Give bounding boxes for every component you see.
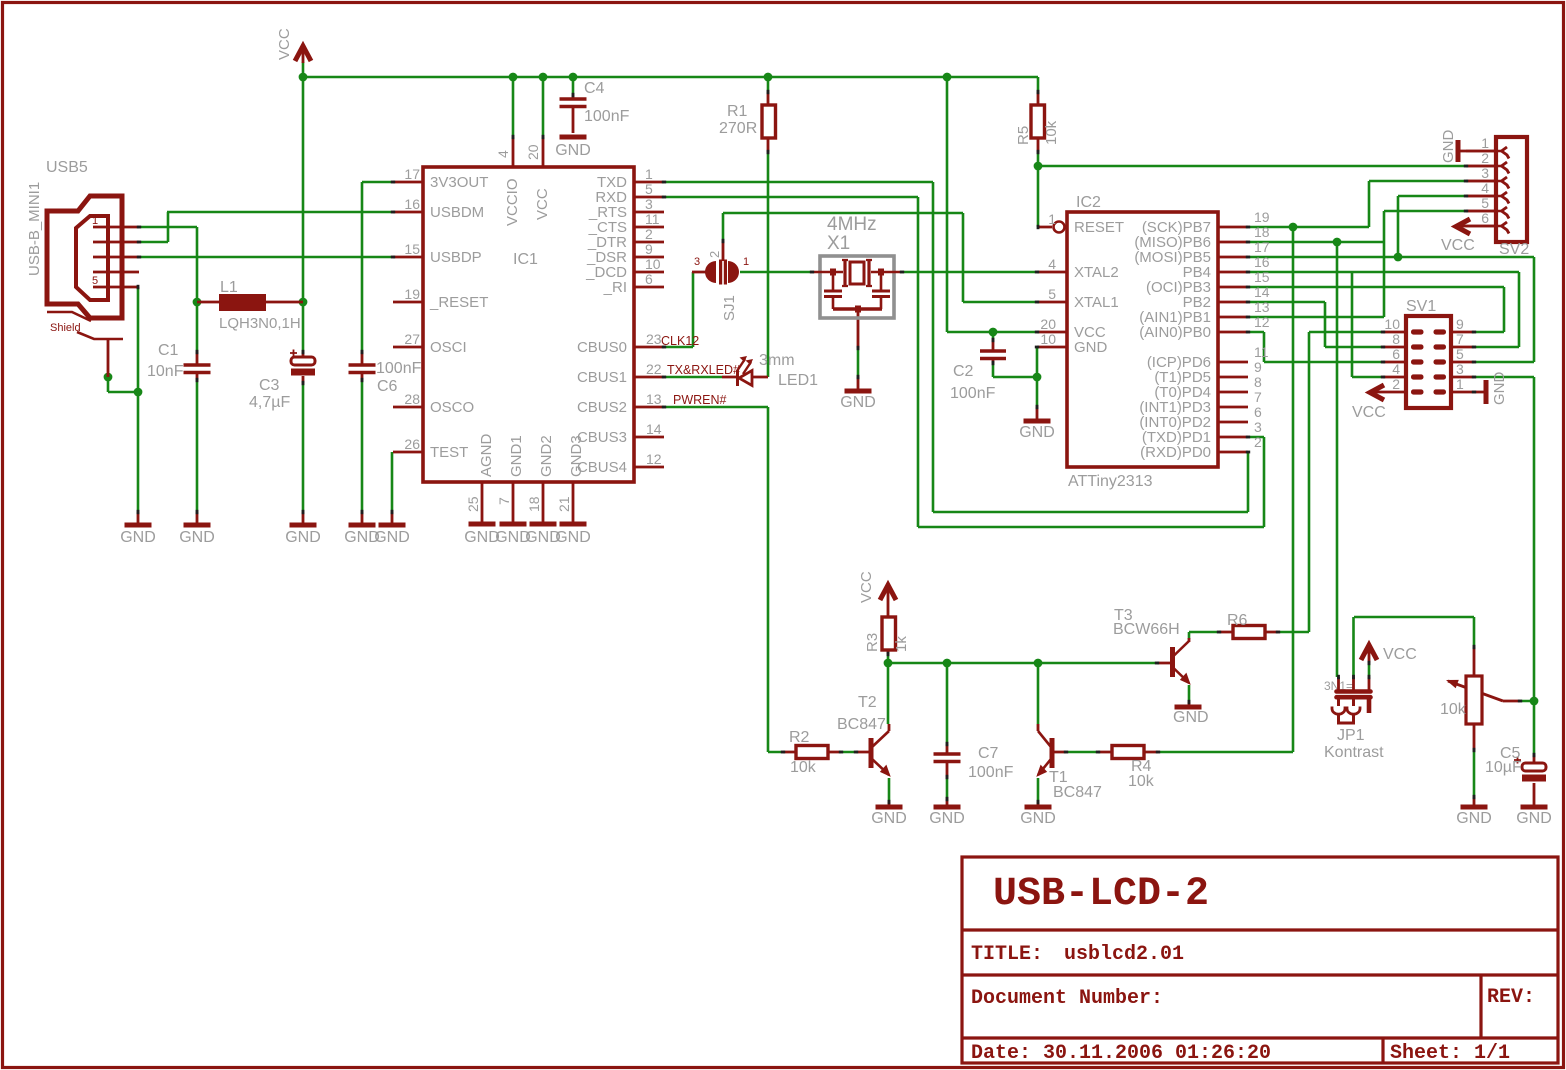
svg-text:GND: GND xyxy=(1491,372,1508,406)
svg-text:GND: GND xyxy=(1456,810,1492,827)
svg-text:Shield: Shield xyxy=(50,322,81,334)
svg-text:CBUS2: CBUS2 xyxy=(577,399,627,416)
svg-text:LQH3N0,1H: LQH3N0,1H xyxy=(219,315,301,332)
svg-text:15: 15 xyxy=(404,241,420,257)
svg-text:1: 1 xyxy=(645,166,653,182)
svg-text:19: 19 xyxy=(404,286,420,302)
svg-text:T2: T2 xyxy=(858,694,877,711)
svg-text:Date: 30.11.2006 01:26:20: Date: 30.11.2006 01:26:20 xyxy=(971,1042,1271,1065)
svg-text:10k: 10k xyxy=(1128,773,1155,790)
svg-text:4: 4 xyxy=(1048,256,1056,272)
svg-text:TEST: TEST xyxy=(430,444,468,461)
svg-text:C6: C6 xyxy=(377,378,398,395)
svg-text:15: 15 xyxy=(1254,269,1270,285)
svg-text:6: 6 xyxy=(1481,210,1489,226)
svg-text:10: 10 xyxy=(1384,316,1400,332)
svg-text:USBDP: USBDP xyxy=(430,249,482,266)
svg-text:LED1: LED1 xyxy=(778,372,818,389)
svg-text:26: 26 xyxy=(404,436,420,452)
svg-text:TX&RXLED#: TX&RXLED# xyxy=(667,363,740,377)
svg-text:10k: 10k xyxy=(790,759,817,776)
svg-text:100nF: 100nF xyxy=(376,360,422,377)
svg-text:IC2: IC2 xyxy=(1076,194,1101,211)
svg-text:R2: R2 xyxy=(789,729,810,746)
svg-text:GND: GND xyxy=(1440,130,1457,164)
svg-text:14: 14 xyxy=(646,421,662,437)
svg-text:5: 5 xyxy=(1481,195,1489,211)
svg-text:5: 5 xyxy=(1456,346,1464,362)
svg-text:13: 13 xyxy=(1254,299,1270,315)
svg-text:VCC: VCC xyxy=(1441,237,1475,254)
svg-text:GND: GND xyxy=(374,529,410,546)
svg-text:GND3: GND3 xyxy=(568,435,585,477)
svg-text:VCC: VCC xyxy=(534,188,551,220)
svg-text:AGND: AGND xyxy=(478,433,495,477)
svg-text:GND: GND xyxy=(1074,339,1108,356)
svg-text:12: 12 xyxy=(1254,314,1270,330)
svg-text:1k: 1k xyxy=(893,636,910,652)
svg-text:4: 4 xyxy=(1481,180,1489,196)
svg-text:3: 3 xyxy=(1456,361,1464,377)
svg-text:OSCO: OSCO xyxy=(430,399,474,416)
svg-text:5: 5 xyxy=(92,275,98,287)
svg-text:Kontrast: Kontrast xyxy=(1324,744,1384,761)
svg-text:100nF: 100nF xyxy=(950,385,996,402)
svg-text:9: 9 xyxy=(1254,359,1262,375)
svg-text:C2: C2 xyxy=(953,363,974,380)
svg-text:USB-LCD-2: USB-LCD-2 xyxy=(993,872,1209,917)
svg-text:7: 7 xyxy=(1456,331,1464,347)
svg-text:GND: GND xyxy=(555,529,591,546)
svg-text:GND: GND xyxy=(1516,810,1552,827)
svg-text:C7: C7 xyxy=(978,745,999,762)
svg-text:7: 7 xyxy=(496,497,512,505)
svg-text:GND: GND xyxy=(555,142,591,159)
svg-text:L1: L1 xyxy=(220,279,238,296)
svg-text:100nF: 100nF xyxy=(584,108,630,125)
svg-text:27: 27 xyxy=(404,331,420,347)
svg-text:VCC: VCC xyxy=(1352,404,1386,421)
svg-text:Document Number:: Document Number: xyxy=(971,987,1163,1010)
svg-text:12: 12 xyxy=(646,451,662,467)
svg-text:_RI: _RI xyxy=(603,279,627,296)
svg-text:6: 6 xyxy=(1392,346,1400,362)
svg-text:BCW66H: BCW66H xyxy=(1113,621,1180,638)
svg-text:4,7µF: 4,7µF xyxy=(249,394,290,411)
svg-text:JP1: JP1 xyxy=(1337,727,1365,744)
svg-text:5: 5 xyxy=(1048,286,1056,302)
svg-text:3: 3 xyxy=(694,256,700,268)
svg-text:5: 5 xyxy=(645,181,653,197)
svg-text:25: 25 xyxy=(465,496,481,512)
svg-text:1: 1 xyxy=(1481,135,1489,151)
svg-text:20: 20 xyxy=(1040,316,1056,332)
svg-text:XTAL1: XTAL1 xyxy=(1074,294,1119,311)
svg-text:3V3OUT: 3V3OUT xyxy=(430,174,488,191)
svg-text:3mm: 3mm xyxy=(759,352,795,369)
svg-text:7: 7 xyxy=(1254,389,1262,405)
svg-text:10µF: 10µF xyxy=(1485,759,1522,776)
svg-text:18: 18 xyxy=(526,496,542,512)
svg-text:GND2: GND2 xyxy=(538,435,555,477)
svg-text:USB5: USB5 xyxy=(46,159,88,176)
svg-text:9: 9 xyxy=(1456,316,1464,332)
svg-text:R1: R1 xyxy=(727,103,748,120)
svg-text:6: 6 xyxy=(1254,404,1262,420)
svg-text:16: 16 xyxy=(1254,254,1270,270)
svg-text:10nF: 10nF xyxy=(147,363,184,380)
svg-text:CLK12: CLK12 xyxy=(661,334,699,348)
svg-text:R6: R6 xyxy=(1227,612,1248,629)
svg-text:SJ1: SJ1 xyxy=(721,295,738,321)
svg-text:20: 20 xyxy=(525,144,541,160)
svg-text:17: 17 xyxy=(1254,239,1270,255)
svg-text:X1: X1 xyxy=(827,233,850,254)
svg-text:SV1: SV1 xyxy=(1406,298,1436,315)
svg-text:CBUS0: CBUS0 xyxy=(577,339,627,356)
svg-text:PWREN#: PWREN# xyxy=(673,393,727,407)
svg-text:C1: C1 xyxy=(158,342,179,359)
svg-text:23: 23 xyxy=(646,331,662,347)
svg-text:3: 3 xyxy=(645,196,653,212)
svg-text:13: 13 xyxy=(646,391,662,407)
svg-text:GND: GND xyxy=(840,394,876,411)
svg-text:USBDM: USBDM xyxy=(430,204,484,221)
svg-text:Sheet: 1/1: Sheet: 1/1 xyxy=(1390,1042,1510,1065)
svg-text:SV2: SV2 xyxy=(1499,241,1529,258)
svg-text:R3: R3 xyxy=(864,633,881,652)
svg-text:10k: 10k xyxy=(1043,120,1060,145)
svg-text:16: 16 xyxy=(404,196,420,212)
svg-text:GND: GND xyxy=(120,529,156,546)
svg-text:XTAL2: XTAL2 xyxy=(1074,264,1119,281)
svg-text:19: 19 xyxy=(1254,209,1270,225)
svg-text:R5: R5 xyxy=(1015,126,1032,145)
svg-text:4MHz: 4MHz xyxy=(827,214,877,235)
svg-text:1: 1 xyxy=(92,215,98,227)
svg-text:2: 2 xyxy=(645,226,653,242)
svg-text:270R: 270R xyxy=(719,120,757,137)
svg-text:8: 8 xyxy=(1392,331,1400,347)
svg-text:GND: GND xyxy=(1019,424,1055,441)
svg-text:3: 3 xyxy=(1481,165,1489,181)
svg-text:(RXD)PD0: (RXD)PD0 xyxy=(1140,444,1211,461)
svg-text:1: 1 xyxy=(743,256,749,268)
svg-text:GND1: GND1 xyxy=(508,435,525,477)
svg-text:C4: C4 xyxy=(584,80,605,97)
svg-text:REV:: REV: xyxy=(1487,986,1535,1009)
svg-text:BC847: BC847 xyxy=(1053,784,1102,801)
svg-text:IC1: IC1 xyxy=(513,251,538,268)
svg-text:C3: C3 xyxy=(259,377,280,394)
svg-text:usblcd2.01: usblcd2.01 xyxy=(1064,943,1184,966)
svg-text:TITLE:: TITLE: xyxy=(971,943,1043,966)
svg-text:4: 4 xyxy=(495,150,511,158)
svg-text:VCC: VCC xyxy=(276,28,293,60)
svg-text:ATTiny2313: ATTiny2313 xyxy=(1068,473,1153,490)
svg-text:USB-B_MINI1: USB-B_MINI1 xyxy=(26,182,43,276)
svg-text:1: 1 xyxy=(1456,376,1464,392)
svg-text:1: 1 xyxy=(1048,211,1056,227)
svg-text:_RESET: _RESET xyxy=(429,294,488,311)
svg-text:9: 9 xyxy=(645,241,653,257)
svg-text:GND: GND xyxy=(871,810,907,827)
svg-text:VCC: VCC xyxy=(858,571,875,603)
svg-text:100nF: 100nF xyxy=(968,764,1014,781)
svg-text:28: 28 xyxy=(404,391,420,407)
svg-text:2: 2 xyxy=(1481,150,1489,166)
svg-text:14: 14 xyxy=(1254,284,1270,300)
svg-text:VCC: VCC xyxy=(1383,646,1417,663)
svg-text:4: 4 xyxy=(1392,361,1400,377)
svg-text:BC847: BC847 xyxy=(837,716,886,733)
svg-text:RESET: RESET xyxy=(1074,219,1124,236)
svg-text:10: 10 xyxy=(1040,331,1056,347)
svg-text:GND: GND xyxy=(285,529,321,546)
svg-text:CBUS1: CBUS1 xyxy=(577,369,627,386)
svg-text:GND: GND xyxy=(929,810,965,827)
svg-text:11: 11 xyxy=(645,211,660,227)
svg-text:17: 17 xyxy=(404,166,420,182)
svg-text:GND: GND xyxy=(1173,709,1209,726)
svg-text:21: 21 xyxy=(556,496,572,512)
svg-text:8: 8 xyxy=(1254,374,1262,390)
svg-text:2: 2 xyxy=(1254,434,1262,450)
svg-text:3: 3 xyxy=(1254,419,1262,435)
svg-text:11: 11 xyxy=(1254,344,1269,360)
svg-text:2: 2 xyxy=(1392,376,1400,392)
svg-text:6: 6 xyxy=(645,271,653,287)
svg-text:(AIN0)PB0: (AIN0)PB0 xyxy=(1139,324,1211,341)
svg-text:VCCIO: VCCIO xyxy=(504,178,521,226)
svg-text:10k: 10k xyxy=(1440,701,1467,718)
svg-text:GND: GND xyxy=(179,529,215,546)
svg-text:2: 2 xyxy=(707,251,722,258)
svg-text:22: 22 xyxy=(646,361,662,377)
svg-text:OSCI: OSCI xyxy=(430,339,467,356)
svg-text:18: 18 xyxy=(1254,224,1270,240)
svg-text:10: 10 xyxy=(645,256,661,272)
svg-text:GND: GND xyxy=(1020,810,1056,827)
